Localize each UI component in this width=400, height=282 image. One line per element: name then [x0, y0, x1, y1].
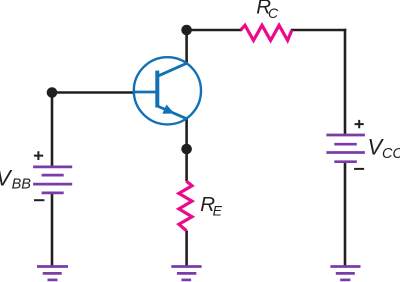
svg-text:CC: CC [382, 146, 400, 162]
svg-text:E: E [213, 203, 223, 219]
svg-text:BB: BB [12, 177, 32, 193]
svg-text:C: C [268, 5, 279, 21]
